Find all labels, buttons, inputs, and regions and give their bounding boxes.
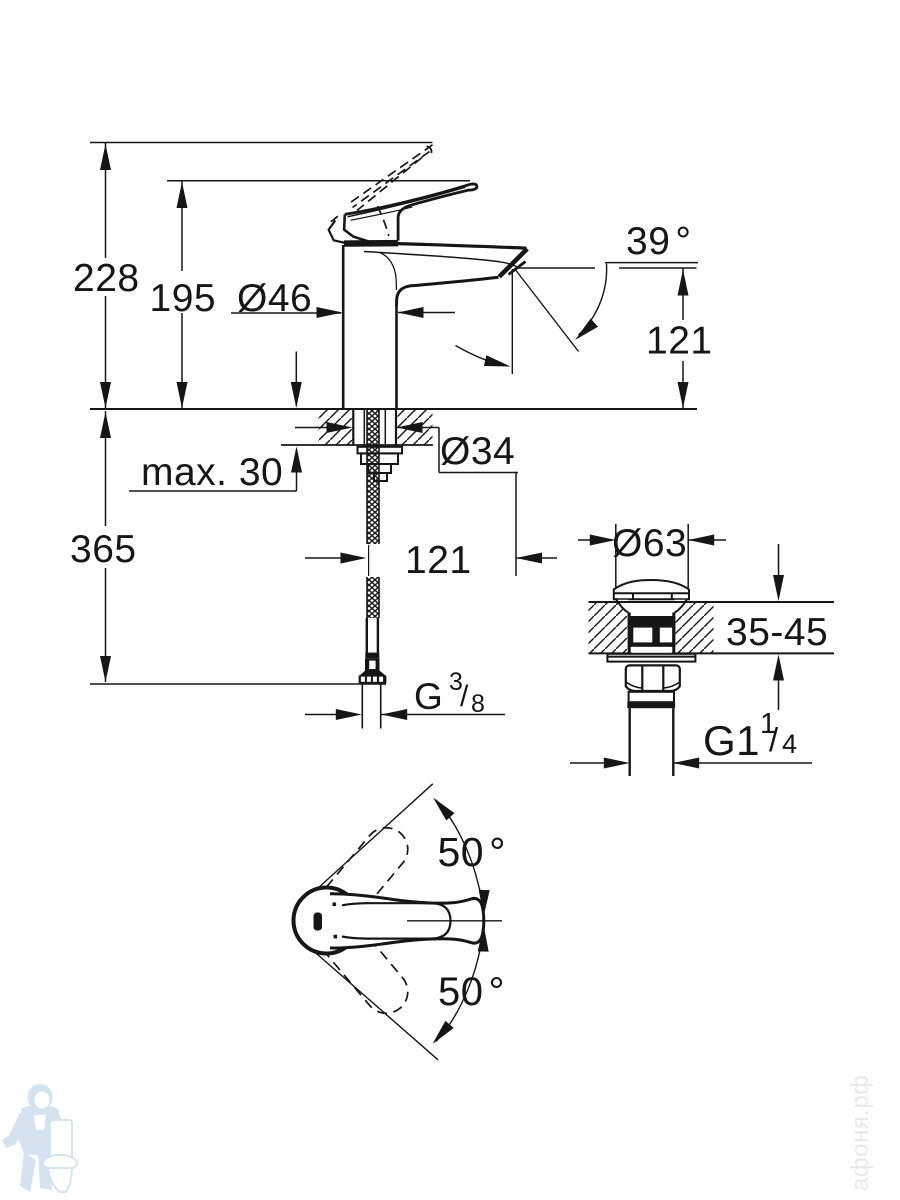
counter top surface line [90,408,697,410]
mounting nut step 3 [374,473,387,481]
mounting nut step 2 [368,464,391,473]
handle dashed rotated down 50 deg [326,926,407,1013]
drain lock collar [629,692,674,702]
handle detail dot upper [333,903,337,907]
hose end reference line [90,683,386,685]
drain hex nut [626,665,680,691]
dimension Ø63 [578,524,726,588]
svg-text:G: G [414,676,443,717]
G3/8 threaded tube [362,684,380,728]
rotation arc lower 50 deg [436,928,484,1042]
counter hatched section right [398,410,433,445]
angle arc 39 deg with arrowhead [579,264,607,336]
svg-text:афоня.рф: афоня.рф [847,1075,874,1191]
spout upper inner line [364,252,520,269]
svg-text:195: 195 [150,277,217,320]
svg-text:50°: 50° [438,829,507,875]
flexible hose braided lower segment [367,577,379,618]
handle top view base circle [294,888,360,954]
dimension Ø46 leader and arrows [231,307,455,318]
mounting nut step 1 [361,453,398,464]
dimension 35-45 [773,544,784,710]
watermark plumber logo bottom left [2,1084,77,1192]
svg-text:39°: 39° [626,220,692,263]
drain body dark interior [628,616,676,647]
dimension Ø34 arrows [295,422,439,473]
hose fitting flare [360,671,386,676]
label G 3/8 [414,668,485,718]
hose break tick [368,545,370,576]
flexible hose braided upper segment [367,410,379,545]
svg-text:/: / [769,721,779,758]
sink deck bottom line [589,652,835,654]
rotation limit line upper [317,784,433,889]
drain body funnel neck [616,600,686,613]
drain dome cap [614,580,689,599]
label 39 deg leader line [605,262,698,264]
svg-text:4: 4 [782,729,798,759]
rotation limit line lower [314,951,439,1060]
label G1 1/4 [703,708,798,764]
spray axis line 39 deg [515,269,579,352]
handle top view inner face [342,903,451,938]
counter hatched section left [319,410,353,445]
svg-text:8: 8 [471,690,485,718]
faucet body top lever band [344,240,398,247]
svg-text:365: 365 [70,528,137,571]
lever inner top line [348,187,466,217]
drain flange washer [607,654,695,662]
svg-text:35-45: 35-45 [726,611,828,654]
counter bottom line [281,444,433,446]
faucet body interior blend curve [380,253,397,291]
handle centerline [407,920,502,922]
swivel arrow under spout [456,346,501,365]
rotation arc upper 50 deg [436,800,484,913]
lever inner lower line [351,207,413,220]
horizontal angle reference line [516,267,697,269]
dimension 121 middle horizontal [305,553,557,564]
drain body walls [629,613,674,654]
svg-text:50°: 50° [438,970,505,1014]
faucet body left edge [342,245,345,408]
mounting shank inner walls [364,410,385,447]
dimension extension line 195 [167,180,470,182]
hose fitting body [365,658,380,671]
drain overflow slots white [632,628,673,654]
vertical reference below spout tip [511,269,513,374]
lever front face [344,214,372,242]
svg-text:max. 30: max. 30 [141,451,283,494]
dimension 228 vertical line with arrows [100,143,111,408]
sink deck hatched right [676,603,714,653]
spout aerator face [499,249,527,277]
hose end tube [367,618,378,653]
handle detail dot lower [334,935,338,939]
hose crimp collar [365,653,379,659]
svg-text:Ø34: Ø34 [440,430,515,473]
dimension 195 vertical line with arrows [177,181,188,408]
drain tailpipe [630,708,674,776]
handle top view grip fill [330,894,484,948]
sink deck hatched left [589,603,628,653]
sink deck top line [589,601,835,603]
Ø34 leader underline and drop line [439,473,518,577]
svg-text:/: / [460,680,469,713]
dimension max 30 lower leader [129,447,302,492]
lever front tip polygon [329,221,346,244]
svg-text:G1: G1 [703,717,760,764]
svg-text:Ø63: Ø63 [612,522,687,565]
svg-text:121: 121 [405,539,472,582]
dimension G 3/8 [305,709,505,720]
lever handle solid outline [345,184,477,241]
mounting shank walls [353,410,396,446]
dimension 365 vertical [100,411,111,682]
handle top view grip outline [330,894,484,948]
spout top edge [398,244,527,249]
hose connection nut [359,675,387,684]
handle dashed rotated up 50 deg [326,828,407,915]
mounting washer [358,447,403,454]
svg-text:121: 121 [646,320,713,363]
drain collar dark band [627,702,675,708]
lever handle dashed raised position [331,145,433,236]
dimension G1 1/4 [570,758,812,769]
dimension extension line top 228 [90,142,433,144]
svg-text:228: 228 [73,257,140,300]
handle logo mark [314,913,323,931]
faucet body right edge [395,305,398,408]
dimension 121 right vertical [678,269,689,409]
drain funnel white masks [616,600,687,613]
dimension max 30 upper arrow [291,352,302,409]
spout underside edge [397,277,499,306]
